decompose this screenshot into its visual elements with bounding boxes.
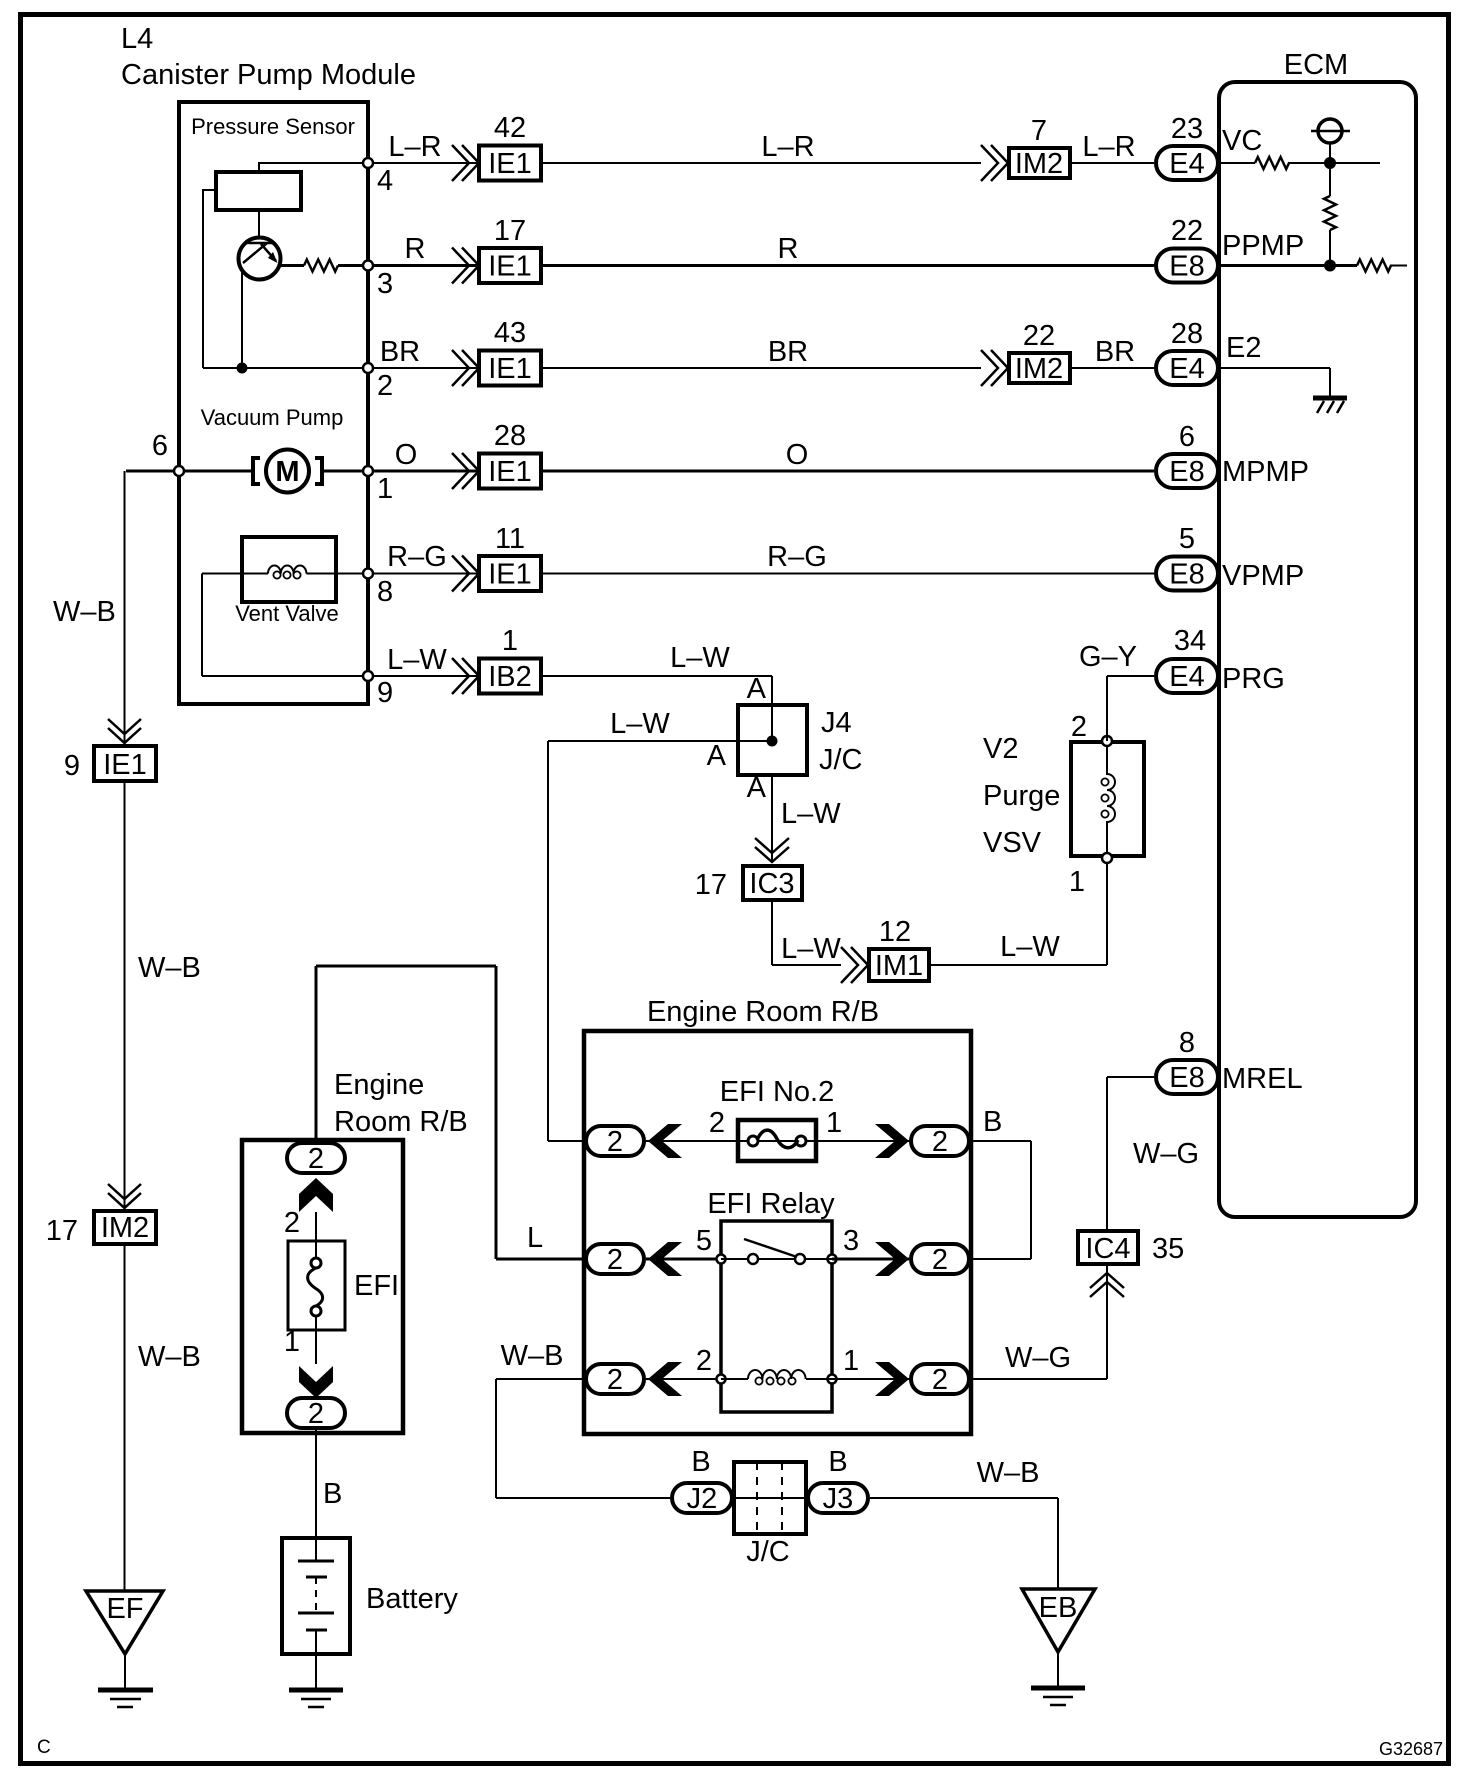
- wire B loop: [971, 1141, 1031, 1259]
- vent valve coil: [202, 566, 363, 574]
- wire row2 right: [832, 1258, 909, 1261]
- svg-text:1: 1: [284, 1326, 300, 1358]
- svg-text:EFI No.2: EFI No.2: [720, 1076, 834, 1108]
- VC internal resistor: [1255, 157, 1289, 169]
- svg-text:IM2: IM2: [1015, 148, 1063, 180]
- chevron before IM2 7: [981, 145, 1008, 181]
- wire L-W pin9 to IB2: [373, 675, 477, 677]
- wire R-G IE1 to E8: [543, 573, 1154, 575]
- svg-text:PRG: PRG: [1222, 663, 1285, 695]
- connector IM1 12: [869, 916, 929, 982]
- svg-text:2: 2: [308, 1398, 324, 1430]
- svg-text:W–B: W–B: [977, 1457, 1040, 1489]
- label Engine Room R/B left: [334, 1069, 468, 1138]
- chevron row3: [452, 248, 479, 284]
- svg-text:O: O: [786, 439, 809, 471]
- connector 2 row1 right: [911, 1126, 969, 1158]
- svg-text:G–Y: G–Y: [1079, 641, 1137, 673]
- relay coil: [717, 1370, 837, 1385]
- svg-text:1: 1: [826, 1107, 842, 1139]
- wire L-R IM2 to E4: [1072, 162, 1154, 164]
- svg-text:A: A: [707, 740, 727, 772]
- svg-text:M: M: [275, 456, 299, 488]
- chevron row2: [452, 350, 479, 386]
- svg-text:2: 2: [607, 1364, 623, 1396]
- svg-text:22: 22: [1171, 215, 1203, 247]
- arrow right row1: [875, 1124, 909, 1158]
- wire O pin1 to IE1: [373, 470, 477, 473]
- arrow left row3: [648, 1362, 682, 1396]
- svg-text:34: 34: [1174, 625, 1206, 657]
- chevron row8: [452, 556, 479, 592]
- connector IE1 43: [479, 317, 541, 386]
- battery: [282, 1538, 458, 1690]
- wire O IE1 to E8: [543, 470, 1154, 473]
- svg-text:BR: BR: [768, 336, 808, 368]
- wire E2 internal: [1220, 368, 1330, 398]
- wire J3 to EB: [870, 1498, 1058, 1589]
- ground EB: [1022, 1589, 1095, 1705]
- svg-text:L4: L4: [121, 23, 153, 55]
- pin 3: [363, 261, 393, 301]
- motor M vacuum pump: [253, 450, 322, 493]
- svg-text:BR: BR: [380, 336, 420, 368]
- arrow right row2: [875, 1242, 909, 1276]
- svg-text:A: A: [747, 772, 767, 804]
- svg-text:L–R: L–R: [1082, 131, 1135, 163]
- svg-text:IE1: IE1: [488, 456, 532, 488]
- wire R-G pin8 to IE1: [373, 573, 477, 575]
- ground EF: [86, 1591, 163, 1707]
- svg-text:6: 6: [1179, 421, 1195, 453]
- svg-text:B: B: [323, 1478, 342, 1510]
- svg-text:2: 2: [932, 1364, 948, 1396]
- svg-text:17: 17: [695, 869, 727, 901]
- svg-text:L–W: L–W: [670, 642, 730, 674]
- chevron row1: [452, 453, 479, 489]
- connector 2 row3 right: [911, 1364, 969, 1396]
- svg-text:C: C: [37, 1737, 51, 1758]
- connector E8 6 MPMP: [1156, 421, 1309, 488]
- chevron below IC4: [1090, 1273, 1124, 1297]
- vent valve box: [242, 537, 336, 602]
- svg-text:W–B: W–B: [53, 596, 116, 628]
- ECM box: [1219, 82, 1416, 1217]
- connector IE1 42: [479, 112, 541, 181]
- svg-text:Engine Room R/B: Engine Room R/B: [647, 996, 879, 1028]
- VSV pin 2: [1071, 711, 1112, 746]
- svg-text:23: 23: [1171, 113, 1203, 145]
- svg-text:MREL: MREL: [1222, 1063, 1303, 1095]
- svg-text:Canister Pump Module: Canister Pump Module: [121, 59, 416, 91]
- connector IM2 17: [46, 1211, 156, 1247]
- connector E8 22 PPMP: [1156, 215, 1304, 283]
- connector 2 row1 left: [586, 1126, 644, 1158]
- connector 2 row3 left: [586, 1364, 644, 1396]
- transistor Q1: [239, 238, 281, 280]
- wire vent valve to pin 9: [202, 574, 363, 677]
- svg-text:6: 6: [152, 430, 168, 462]
- svg-text:L–W: L–W: [781, 798, 841, 830]
- svg-text:3: 3: [377, 268, 393, 300]
- svg-text:J/C: J/C: [819, 744, 863, 776]
- wire row1 left: [646, 1140, 736, 1142]
- chevron before IM1: [841, 947, 868, 983]
- svg-text:Purge: Purge: [983, 780, 1060, 812]
- chevron into IM2 17: [108, 1184, 141, 1208]
- wire R pin3 to IE1: [373, 264, 477, 267]
- svg-text:EF: EF: [106, 1593, 143, 1625]
- svg-text:22: 22: [1023, 320, 1055, 352]
- relay box EFI: [721, 1221, 832, 1412]
- svg-text:3: 3: [843, 1225, 859, 1257]
- arrow left row2: [648, 1242, 682, 1276]
- wire J4 down to IC3: [771, 777, 773, 863]
- wire sensor bottom to transistor: [258, 210, 260, 238]
- svg-text:V2: V2: [983, 733, 1018, 765]
- wire L-R pin4 to IE1: [373, 162, 477, 164]
- ground below battery: [289, 1690, 343, 1707]
- svg-text:12: 12: [879, 916, 911, 948]
- engine room R/B left box: [242, 1140, 403, 1433]
- wire L-W IB2 to J4: [543, 676, 772, 703]
- svg-text:Battery: Battery: [366, 1583, 458, 1615]
- connector 2 left RB top: [287, 1143, 345, 1175]
- connector E8 8 MREL: [1156, 1027, 1303, 1095]
- label L4 Canister Pump Module: [121, 23, 416, 91]
- wire W-B drop pin6 chain chevron: [108, 719, 141, 743]
- wire pin6 to motor to pin1: [184, 470, 363, 473]
- connector J2: [672, 1446, 732, 1515]
- chevron row4: [452, 145, 479, 181]
- wire fuse to bottom oval: [315, 1316, 317, 1364]
- connector IE1 17: [479, 215, 541, 283]
- svg-text:Room R/B: Room R/B: [334, 1106, 468, 1138]
- svg-text:42: 42: [494, 112, 526, 144]
- wire pin6 left to W-B drop: [125, 471, 175, 744]
- wire BR node to pin 2: [203, 367, 368, 369]
- node PPMP dot: [1324, 260, 1336, 272]
- svg-text:1: 1: [377, 473, 393, 505]
- svg-text:IM2: IM2: [101, 1212, 149, 1244]
- pin 6: [152, 430, 184, 476]
- wire into EFI fuse: [315, 1212, 317, 1258]
- svg-text:L–W: L–W: [781, 933, 841, 965]
- svg-text:L–W: L–W: [610, 708, 670, 740]
- svg-text:L–W: L–W: [387, 644, 447, 676]
- connector IM2 22: [1009, 320, 1070, 385]
- svg-text:IC3: IC3: [749, 868, 794, 900]
- svg-text:Pressure Sensor: Pressure Sensor: [191, 114, 355, 139]
- arrow down: [299, 1366, 333, 1398]
- svg-text:Vent Valve: Vent Valve: [235, 601, 339, 626]
- svg-text:J2: J2: [687, 1483, 718, 1515]
- svg-text:O: O: [395, 439, 418, 471]
- pin 1: [363, 466, 393, 505]
- svg-text:5: 5: [696, 1225, 712, 1257]
- svg-text:J/C: J/C: [746, 1536, 790, 1568]
- svg-text:B: B: [691, 1446, 710, 1478]
- svg-text:EFI: EFI: [354, 1270, 399, 1302]
- wire IM1 to VSV pin1: [931, 858, 1107, 965]
- svg-text:IE1: IE1: [488, 251, 532, 283]
- VSV pin 1: [1069, 853, 1112, 898]
- svg-text:2: 2: [308, 1143, 324, 1175]
- purge VSV V2 box: [1071, 742, 1144, 856]
- junction dot BR: [237, 363, 248, 374]
- svg-text:W–B: W–B: [501, 1340, 564, 1372]
- svg-text:E8: E8: [1169, 456, 1204, 488]
- svg-text:17: 17: [494, 215, 526, 247]
- wire L from left RB top: [316, 966, 584, 1259]
- svg-text:IM2: IM2: [1015, 353, 1063, 385]
- svg-text:VSV: VSV: [983, 827, 1042, 859]
- wire sensor top to pin 4: [259, 162, 368, 172]
- svg-text:J3: J3: [823, 1483, 854, 1515]
- pin 2: [363, 363, 393, 402]
- svg-text:B: B: [828, 1446, 847, 1478]
- wire IM2 17 to EF: [124, 1246, 126, 1591]
- svg-text:BR: BR: [1095, 336, 1135, 368]
- svg-text:IE1: IE1: [488, 353, 532, 385]
- svg-text:IE1: IE1: [488, 559, 532, 591]
- svg-text:L–W: L–W: [1000, 931, 1060, 963]
- wire transistor to resistor to pin 3: [280, 264, 368, 267]
- svg-text:2: 2: [932, 1126, 948, 1158]
- wire BR pin2 to IE1: [373, 367, 477, 369]
- fuse EFI box: [288, 1241, 399, 1330]
- label V2 Purge VSV: [983, 733, 1060, 859]
- svg-text:IE1: IE1: [488, 148, 532, 180]
- arrow left row1: [648, 1124, 682, 1158]
- wire VC to node: [1220, 162, 1380, 164]
- svg-text:17: 17: [46, 1215, 78, 1247]
- svg-text:1: 1: [502, 625, 518, 657]
- svg-text:R–G: R–G: [387, 541, 447, 573]
- connector IE1 28: [479, 420, 541, 489]
- wire L-R IE1 to IM2: [543, 162, 981, 164]
- svg-text:28: 28: [494, 420, 526, 452]
- power symbol: [1311, 119, 1350, 163]
- svg-text:IB2: IB2: [488, 661, 532, 693]
- resistor in sensor: [304, 260, 338, 272]
- svg-text:J4: J4: [821, 707, 852, 739]
- fuse EFI No.2: [736, 1120, 818, 1161]
- svg-text:9: 9: [64, 750, 80, 782]
- svg-text:5: 5: [1179, 523, 1195, 555]
- svg-text:E2: E2: [1226, 332, 1261, 364]
- connector 2 row2 right: [911, 1244, 969, 1276]
- svg-text:EFI Relay: EFI Relay: [707, 1188, 835, 1220]
- svg-text:2: 2: [696, 1345, 712, 1377]
- connector 2 row2 left: [586, 1244, 644, 1276]
- svg-text:G32687: G32687: [1379, 1739, 1443, 1759]
- svg-text:VPMP: VPMP: [1222, 560, 1304, 592]
- node VC dot: [1324, 157, 1336, 169]
- E2 chassis ground: [1313, 398, 1347, 413]
- svg-text:8: 8: [1179, 1027, 1195, 1059]
- svg-text:E8: E8: [1169, 1062, 1204, 1094]
- svg-text:2: 2: [709, 1107, 725, 1139]
- svg-text:E4: E4: [1169, 148, 1204, 180]
- arrow right row3: [875, 1362, 909, 1396]
- connector IB2 1: [479, 625, 541, 694]
- svg-text:1: 1: [1069, 866, 1085, 898]
- canister pump module box: [179, 102, 368, 704]
- svg-text:W–B: W–B: [138, 952, 201, 984]
- svg-text:35: 35: [1152, 1233, 1184, 1265]
- connector IC3 17: [695, 866, 802, 901]
- PPMP right resistor: [1357, 260, 1407, 272]
- svg-text:2: 2: [607, 1244, 623, 1276]
- wire transistor collector to BR node: [241, 268, 243, 368]
- svg-text:Engine: Engine: [334, 1069, 424, 1101]
- svg-text:IM1: IM1: [875, 950, 923, 982]
- connector IC4 35: [1078, 1231, 1184, 1265]
- chevron row9: [452, 658, 479, 694]
- svg-text:IC4: IC4: [1085, 1233, 1130, 1265]
- wire row1 right: [818, 1140, 909, 1142]
- wire row3 right: [832, 1378, 909, 1380]
- wire R IE1 to E8: [543, 264, 1154, 267]
- connector E4 34 PRG: [1156, 625, 1285, 695]
- connector J3: [808, 1446, 868, 1515]
- svg-text:MPMP: MPMP: [1222, 456, 1309, 488]
- pin 9: [363, 671, 393, 709]
- svg-text:EB: EB: [1039, 1592, 1078, 1624]
- wire L-W J4 left branch: [548, 741, 736, 1141]
- wire BR IM2 to E4: [1072, 367, 1154, 369]
- svg-text:E8: E8: [1169, 251, 1204, 283]
- relay switch contact: [717, 1239, 837, 1264]
- connector IE1 11: [479, 523, 541, 591]
- svg-text:A: A: [747, 673, 767, 705]
- svg-text:L–R: L–R: [388, 131, 441, 163]
- svg-text:W–G: W–G: [1133, 1138, 1199, 1170]
- svg-text:2: 2: [932, 1244, 948, 1276]
- svg-text:W–B: W–B: [138, 1341, 201, 1373]
- svg-text:E8: E8: [1169, 559, 1204, 591]
- wire row3 left: [646, 1378, 721, 1380]
- junction connector J/C bottom: [734, 1462, 806, 1568]
- wire sensor left branch: [203, 189, 216, 368]
- wire row2 left: [646, 1258, 721, 1261]
- wire B to battery: [315, 1430, 317, 1561]
- chevron before IM2 22: [981, 350, 1008, 386]
- svg-text:2: 2: [607, 1126, 623, 1158]
- wire BR IE1 to IM2: [543, 367, 981, 369]
- svg-text:7: 7: [1031, 115, 1047, 147]
- svg-text:R: R: [778, 233, 799, 265]
- svg-text:28: 28: [1171, 318, 1203, 350]
- wire IE1 9 to IM2 17: [124, 783, 126, 1209]
- connector IE1 9: [64, 746, 156, 782]
- svg-text:L: L: [527, 1222, 543, 1254]
- svg-text:2: 2: [1071, 711, 1087, 743]
- svg-text:Vacuum Pump: Vacuum Pump: [201, 405, 344, 430]
- wire IC4 down to relay coil row: [971, 1266, 1107, 1379]
- svg-text:4: 4: [377, 165, 393, 197]
- junction connector J4 J/C: [736, 703, 863, 776]
- svg-text:2: 2: [284, 1207, 300, 1239]
- engine room R/B center box: [584, 1031, 971, 1434]
- connector E8 5 VPMP: [1156, 523, 1304, 592]
- svg-text:L–R: L–R: [761, 131, 814, 163]
- svg-text:IE1: IE1: [103, 749, 147, 781]
- wire PPMP internal: [1220, 264, 1357, 267]
- svg-text:43: 43: [494, 317, 526, 349]
- chevron into IC3: [755, 838, 789, 862]
- arrow up: [299, 1178, 333, 1212]
- wire W-B row3 to J2: [496, 1379, 670, 1498]
- wire G-Y VSV to PRG: [1107, 676, 1154, 741]
- svg-text:ECM: ECM: [1284, 49, 1348, 81]
- wire IC3 to IM1: [772, 902, 841, 965]
- svg-text:11: 11: [495, 523, 525, 555]
- svg-text:1: 1: [843, 1345, 859, 1377]
- connector IM2 7: [1009, 115, 1070, 180]
- connector 2 left RB bottom: [287, 1398, 345, 1430]
- svg-text:PPMP: PPMP: [1222, 230, 1304, 262]
- svg-text:9: 9: [377, 677, 393, 709]
- wire MREL to IC4: [1107, 1077, 1154, 1229]
- connector E4 23 VC: [1156, 113, 1262, 180]
- svg-text:E4: E4: [1169, 353, 1204, 385]
- svg-text:E4: E4: [1169, 661, 1204, 693]
- svg-text:R–G: R–G: [767, 541, 827, 573]
- pin 8: [363, 569, 393, 609]
- svg-text:2: 2: [377, 370, 393, 402]
- svg-text:VC: VC: [1222, 125, 1262, 157]
- connector E4 28 E2: [1156, 318, 1261, 385]
- pin 4: [363, 158, 393, 197]
- vertical resistor VC-PPMP: [1324, 163, 1336, 266]
- svg-text:R: R: [405, 233, 426, 265]
- svg-text:W–G: W–G: [1005, 1342, 1071, 1374]
- pressure sensor element box: [216, 172, 301, 210]
- svg-text:B: B: [983, 1106, 1002, 1138]
- svg-text:8: 8: [377, 576, 393, 608]
